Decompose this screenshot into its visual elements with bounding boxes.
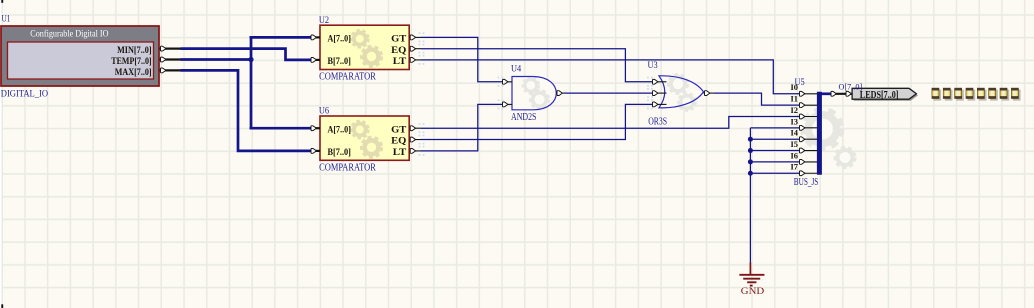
svg-text:BUS_JS: BUS_JS xyxy=(794,177,819,188)
svg-text:COMPARATOR: COMPARATOR xyxy=(319,72,376,83)
U2 pin LT output xyxy=(410,58,422,63)
U2 pin GT output xyxy=(410,35,422,40)
U6 pin GT output xyxy=(410,126,422,131)
wire U2.LT to U5 I0 xyxy=(421,60,799,94)
component U5 BUS_JS bar xyxy=(817,92,822,175)
svg-text:OR3S: OR3S xyxy=(648,117,667,128)
U2 pin A input xyxy=(311,35,320,40)
U4 gear watermark 2 xyxy=(530,90,548,108)
svg-text:LEDS[7..0]: LEDS[7..0] xyxy=(860,90,899,101)
U2 pin EQ output xyxy=(410,46,422,51)
U5 pin O output xyxy=(831,91,852,96)
U1 pin TEMP xyxy=(160,57,181,62)
bus TEMP to U2.A xyxy=(250,36,312,39)
sheet edge strip xyxy=(0,0,2,308)
svg-text:I4: I4 xyxy=(791,129,799,138)
wire I3 stub xyxy=(750,127,799,129)
U5 gear watermark 2 xyxy=(835,148,855,168)
U6 pin A input xyxy=(311,126,320,131)
U6 gear watermark 1 xyxy=(351,121,368,138)
junction TEMP xyxy=(248,57,253,62)
IC U1 DIGITAL_IO body xyxy=(1,26,159,86)
junction I6 xyxy=(748,159,753,164)
LED D5 xyxy=(988,88,998,101)
sheet corner mark bottom-left xyxy=(1,304,3,308)
U3 pin input1 xyxy=(652,79,667,84)
LED D0 xyxy=(932,88,942,101)
bus TEMP net U1.TEMP to junction xyxy=(181,58,252,61)
U5 gear watermark 1 xyxy=(804,110,842,148)
svg-text:A[7..0]: A[7..0] xyxy=(328,35,351,45)
LED D1 xyxy=(943,88,953,101)
svg-text:MAX[7..0]: MAX[7..0] xyxy=(115,68,152,78)
bus TEMP to U6.A xyxy=(250,127,312,130)
U5 pin I3 xyxy=(791,117,818,130)
wire I6 stub xyxy=(750,161,799,163)
U4 pin input2 xyxy=(503,102,513,107)
svg-text:U1: U1 xyxy=(2,14,11,24)
svg-text:EQ: EQ xyxy=(391,46,406,56)
wire U2.GT to U4 input1 xyxy=(421,37,503,81)
U5 pin I6 xyxy=(791,151,818,164)
gate U3 OR3S fill xyxy=(659,76,704,108)
U5 pin I0 xyxy=(791,83,818,96)
svg-text:EQ: EQ xyxy=(391,137,406,147)
U6 pin B input xyxy=(311,149,320,154)
svg-text:DIGITAL_IO: DIGITAL_IO xyxy=(1,89,48,99)
U2 pin B input xyxy=(311,58,320,63)
port LEDS[7..0] shadow xyxy=(854,90,918,101)
wire U6.GT to U5 I2 xyxy=(421,117,799,129)
U1 pin MAX xyxy=(160,68,181,73)
U3 pin output xyxy=(704,91,715,96)
LED D4 xyxy=(977,88,987,101)
U6 pin LT output xyxy=(410,149,422,154)
U4 pin input1 xyxy=(503,79,513,84)
svg-text:GND: GND xyxy=(741,287,765,297)
ground symbol GND xyxy=(739,263,764,286)
gate U3 OR3S outline xyxy=(659,76,704,108)
svg-text:I5: I5 xyxy=(791,140,799,149)
wire I7 stub xyxy=(750,172,799,174)
port LEDS[7..0] xyxy=(852,88,916,99)
U5 pin I4 xyxy=(791,129,818,142)
LED D3 xyxy=(966,88,976,101)
svg-text:B[7..0]: B[7..0] xyxy=(328,57,351,67)
svg-text:AND2S: AND2S xyxy=(511,112,536,123)
U5 pin I5 xyxy=(791,140,818,153)
svg-text:COMPARATOR: COMPARATOR xyxy=(319,163,376,174)
U5 pin I7 xyxy=(791,163,818,176)
svg-text:TEMP[7..0]: TEMP[7..0] xyxy=(111,57,151,67)
svg-text:U4: U4 xyxy=(511,65,521,75)
svg-text:A[7..0]: A[7..0] xyxy=(328,125,351,135)
svg-text:O[7..0]: O[7..0] xyxy=(839,81,863,91)
svg-text:I0: I0 xyxy=(791,83,799,92)
U5 pin I2 xyxy=(791,106,818,119)
pin hotspot marks xyxy=(419,32,653,156)
svg-text:B[7..0]: B[7..0] xyxy=(328,148,351,158)
svg-text:GT: GT xyxy=(391,35,407,45)
gate U4 AND2S outline xyxy=(512,77,556,110)
U5 pin I1 xyxy=(791,95,818,108)
U4 gear watermark 1 xyxy=(523,77,539,93)
IC U6 COMPARATOR body xyxy=(320,116,409,160)
wire U4.out to U3 input2 xyxy=(565,92,653,94)
U4 pin output xyxy=(556,91,564,96)
svg-text:GT: GT xyxy=(391,125,407,135)
sheet corner mark top-left xyxy=(1,0,3,3)
wire U6.LT to U4 input2 xyxy=(421,104,503,150)
svg-text:U3: U3 xyxy=(648,61,658,71)
gate U4 AND2S fill xyxy=(512,77,556,110)
junction I7 xyxy=(748,171,753,176)
LED D6 xyxy=(1000,88,1010,101)
svg-text:I6: I6 xyxy=(791,151,799,160)
wire U2.EQ to U3 input1 xyxy=(421,49,652,82)
bus MAX net U1.MAX to U6.B xyxy=(181,70,312,150)
svg-text:Configurable Digital IO: Configurable Digital IO xyxy=(30,28,109,38)
wire I5 stub xyxy=(750,150,799,152)
U5 bus output segment xyxy=(819,92,830,95)
wire U3.out to U5 I1 xyxy=(714,93,799,105)
U6 pin EQ output xyxy=(410,137,422,142)
wire GND vertical xyxy=(749,128,751,263)
U2 gear watermark 2 xyxy=(362,47,382,67)
svg-text:MIN[7..0]: MIN[7..0] xyxy=(117,46,152,56)
svg-text:I3: I3 xyxy=(791,117,799,126)
bus TEMP vertical xyxy=(250,37,253,128)
junction I5 xyxy=(748,148,753,153)
U2 gear watermark 1 xyxy=(351,30,368,47)
svg-text:U6: U6 xyxy=(319,107,329,117)
bus MIN net U1.MIN to U2.B xyxy=(181,49,312,60)
svg-text:U2: U2 xyxy=(319,16,329,26)
U3 pin input3 xyxy=(652,102,667,107)
wire I4 stub xyxy=(750,138,799,140)
U3 gear watermark 2 xyxy=(679,94,696,111)
U1 pin MIN xyxy=(160,46,181,51)
U3 gear watermark 1 xyxy=(669,75,688,94)
U6 gear watermark 2 xyxy=(362,137,382,157)
U3 pin input2 xyxy=(652,91,667,96)
svg-text:I7: I7 xyxy=(791,163,799,172)
svg-text:I2: I2 xyxy=(791,106,799,115)
wire U6.EQ to U3 input3 xyxy=(421,104,652,139)
svg-text:LT: LT xyxy=(393,148,407,158)
LED D7 xyxy=(1011,88,1021,101)
IC U2 COMPARATOR body xyxy=(320,25,409,69)
svg-text:LT: LT xyxy=(393,57,407,67)
junction I4 xyxy=(748,137,753,142)
LED D2 xyxy=(954,88,964,101)
svg-text:I1: I1 xyxy=(791,95,799,104)
